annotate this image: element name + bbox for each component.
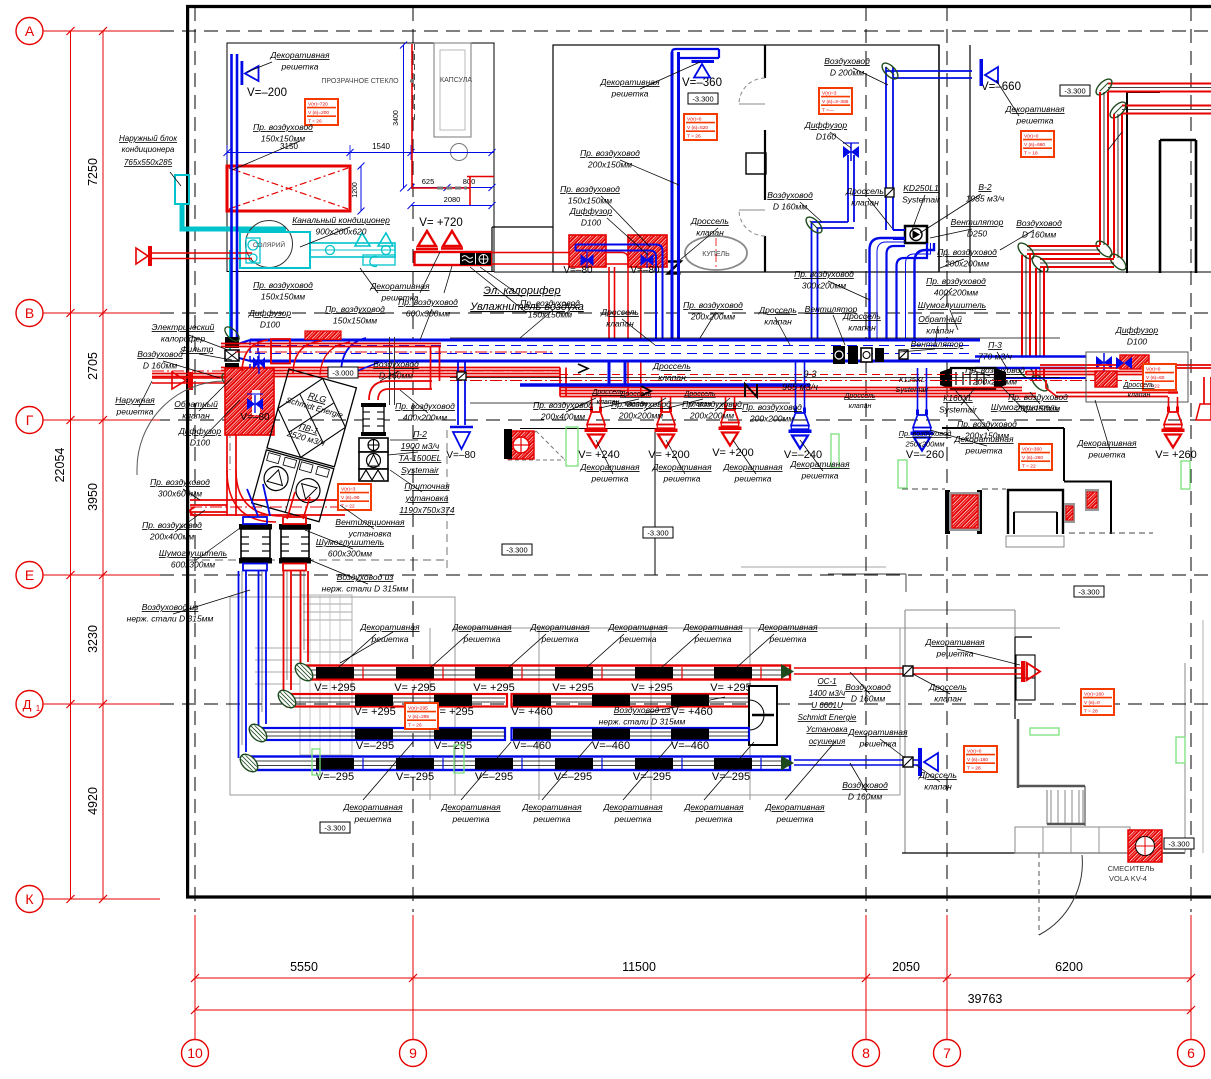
- svg-text:Декоративная: Декоративная: [342, 802, 403, 812]
- svg-text:250x200мм: 250x200мм: [904, 440, 944, 449]
- label КУПЕЛЬ: [685, 236, 747, 270]
- svg-text:D 160мм: D 160мм: [773, 202, 808, 212]
- door posts: [945, 490, 950, 534]
- red supply lines mid pair A: [560, 387, 1022, 389]
- axis bubble А: [16, 18, 43, 45]
- svg-text:625: 625: [422, 177, 435, 186]
- axis 9 red vertical extension: [412, 915, 414, 1040]
- wall x970: [969, 45, 971, 273]
- svg-text:Декоративная: Декоративная: [607, 622, 668, 632]
- drossel on blue drop: [457, 372, 466, 380]
- orange spec box: [964, 746, 997, 772]
- svg-text:D100: D100: [190, 438, 211, 448]
- svg-text:Systemair: Systemair: [401, 465, 440, 475]
- blue riser top-right D200: [885, 67, 887, 230]
- svg-text:V(п)=0: V(п)=0: [687, 117, 702, 123]
- svg-text:Декоративная: Декоративная: [359, 622, 420, 632]
- axis bubble Е: [16, 562, 43, 589]
- grille bars V+720: [416, 248, 438, 251]
- orange spec box: [305, 99, 338, 125]
- exhaust row 4 duct outline: [250, 757, 790, 771]
- svg-text:Дроссель: Дроссель: [600, 307, 639, 317]
- row2 elbow: [275, 687, 299, 711]
- green elbow d160: [803, 214, 824, 235]
- P-2 red elbow from top: [369, 381, 432, 400]
- svg-text:V (в)=3–385: V (в)=3–385: [822, 99, 849, 105]
- blue valve symbol 2: [641, 255, 653, 265]
- partial diffuser right edge: [1203, 377, 1205, 404]
- red dashed companion mid: [560, 374, 1020, 376]
- svg-text:Диффузор: Диффузор: [804, 120, 848, 130]
- elevation mark: [320, 822, 350, 833]
- svg-text:9-3: 9-3: [803, 369, 816, 379]
- blue wide duct 2 down from fan: [897, 243, 928, 345]
- svg-text:Электрический: Электрический: [152, 322, 215, 332]
- canal conditioner triangles: [355, 233, 370, 246]
- red riser to band x430: [430, 347, 432, 389]
- svg-text:V=–295: V=–295: [434, 740, 472, 752]
- red riser A3 down to band: [1021, 255, 1023, 368]
- svg-text:1190x750x374: 1190x750x374: [399, 505, 454, 515]
- bottom dim ticks line2: [191, 1006, 199, 1014]
- svg-text:6: 6: [1187, 1045, 1195, 1061]
- axis Г red extension: [43, 419, 160, 421]
- svg-text:Пр. воздуховод: Пр. воздуховод: [965, 365, 1025, 375]
- right room box around diffuser D100: [1086, 352, 1188, 402]
- P-2 zigzag section: [359, 469, 388, 481]
- svg-text:Пр. воздуховод: Пр. воздуховод: [580, 148, 640, 158]
- svg-text:решетка: решетка: [1088, 450, 1126, 460]
- electric heater black box: [460, 253, 475, 265]
- elevation mark: [643, 527, 673, 538]
- svg-text:решетка: решетка: [776, 814, 814, 824]
- grid line axis 10 vertical: [194, 7, 196, 912]
- svg-text:Приточная: Приточная: [404, 481, 450, 491]
- building outer wall bottom: [186, 895, 1211, 898]
- room boundary below rows: [300, 794, 900, 796]
- shelf boxes along bottom wall: [1015, 827, 1130, 853]
- row1 right green cone: [781, 664, 794, 679]
- svg-text:Дроссель: Дроссель: [845, 186, 884, 196]
- red dash-dot centerline mid: [450, 380, 1175, 382]
- svg-text:Воздуховод: Воздуховод: [824, 56, 870, 66]
- svg-text:200x150мм: 200x150мм: [587, 160, 632, 170]
- svg-text:решетка: решетка: [354, 814, 392, 824]
- supply row 2 duct outline: [287, 694, 507, 707]
- gray dashes near kapsula wall: [437, 187, 467, 190]
- flow arrow black 1: [641, 386, 651, 396]
- svg-text:В: В: [25, 305, 34, 321]
- svg-text:К125XL: К125XL: [899, 375, 925, 384]
- grid line axis A: [160, 30, 1211, 32]
- orange spec box: [1021, 131, 1054, 157]
- main exhaust duct band bottom edge: [250, 360, 980, 363]
- svg-text:V= +260: V= +260: [1155, 449, 1197, 461]
- main exhaust duct band top edge: [250, 339, 980, 342]
- axis bubble 9: [400, 1040, 427, 1067]
- green grille rect: [898, 460, 907, 488]
- silencer 1 blue stubs: [243, 517, 267, 524]
- svg-text:V=–295: V=–295: [356, 740, 394, 752]
- svg-text:V=–295: V=–295: [554, 771, 592, 783]
- svg-text:Декоративная: Декоративная: [764, 802, 825, 812]
- svg-text:К: К: [25, 891, 34, 907]
- svg-text:Дроссель: Дроссель: [758, 305, 797, 315]
- svg-text:Декоративная: Декоративная: [451, 622, 512, 632]
- blue exhaust riser left room: [230, 54, 233, 340]
- axis bubble 8: [853, 1040, 880, 1067]
- svg-text:ТА-1500EL: ТА-1500EL: [399, 453, 442, 463]
- building outer wall left: [186, 5, 189, 898]
- svg-text:решетка: решетка: [591, 474, 629, 484]
- green elbow filter top: [222, 324, 241, 343]
- band transition left: [232, 340, 250, 346]
- svg-text:V (в)=660: V (в)=660: [1024, 142, 1045, 148]
- leader naruzhny blok: [170, 172, 181, 186]
- svg-text:решетка: решетка: [614, 814, 652, 824]
- svg-text:Декоративная: Декоративная: [651, 462, 712, 472]
- svg-text:200x200мм: 200x200мм: [618, 411, 663, 421]
- dashed technical room lines: [446, 430, 448, 573]
- svg-text:Диффузор: Диффузор: [1115, 325, 1159, 335]
- cyan pipe vertical to band: [229, 250, 231, 352]
- RLG top hatch bars: [267, 453, 281, 464]
- mid room wall y569: [741, 566, 886, 568]
- cyan refrigerant pipe: [182, 204, 286, 229]
- svg-text:V(п)=0: V(п)=0: [967, 749, 982, 755]
- svg-text:Установка: Установка: [805, 725, 848, 734]
- blue wide duct 1 down from fan: [870, 238, 906, 340]
- svg-text:D 160мм: D 160мм: [1022, 230, 1057, 240]
- svg-text:11500: 11500: [622, 960, 656, 974]
- svg-text:V= +295: V= +295: [314, 682, 356, 694]
- svg-text:осушения: осушения: [809, 737, 846, 746]
- svg-text:клапан: клапан: [658, 373, 686, 383]
- green grille rect: [831, 434, 839, 468]
- svg-text:V=–295: V=–295: [633, 771, 671, 783]
- left dimension line 2: [102, 31, 104, 899]
- svg-text:Фильтр: Фильтр: [181, 344, 214, 354]
- svg-text:V= +200: V= +200: [648, 449, 690, 461]
- silencer 1 blue: [241, 529, 270, 558]
- svg-text:T = 18: T = 18: [1024, 151, 1038, 157]
- svg-text:T = 26: T = 26: [687, 134, 701, 140]
- svg-text:V(п)=360: V(п)=360: [1022, 447, 1042, 453]
- svg-text:Шумоглушитель: Шумоглушитель: [918, 300, 986, 310]
- orange spec box: [684, 114, 717, 140]
- elevation mark: [1074, 586, 1104, 597]
- canal conditioner arm: [310, 243, 395, 257]
- svg-text:Воздуховод из: Воздуховод из: [337, 572, 394, 582]
- red jog A to left: [1027, 245, 1100, 247]
- svg-text:V (в)=260: V (в)=260: [1022, 455, 1043, 461]
- svg-text:VOLA KV-4: VOLA KV-4: [1109, 874, 1147, 883]
- grid line axis 6 vertical: [1190, 7, 1192, 912]
- room top-center outline: [553, 45, 939, 272]
- svg-text:V=–295: V=–295: [396, 771, 434, 783]
- green elbow A3: [1015, 240, 1036, 261]
- blue diffuser valve D160: [843, 146, 851, 158]
- row1 grilles black: [316, 667, 354, 679]
- svg-text:Пр. воздуховод: Пр. воздуховод: [926, 276, 986, 286]
- svg-text:Воздуховод: Воздуховод: [373, 359, 419, 369]
- svg-text:клапан: клапан: [597, 399, 620, 406]
- svg-text:Пр. воздуховод: Пр. воздуховод: [533, 400, 593, 410]
- svg-text:Диффузор: Диффузор: [569, 206, 613, 216]
- wall x939: [938, 45, 940, 272]
- red supply lines left segment pair B: [152, 373, 560, 375]
- red duct D160 from right edge pair B: [1122, 105, 1211, 107]
- svg-text:V=–80: V=–80: [630, 265, 660, 276]
- red step jog x560: [559, 368, 561, 397]
- black thin line mid band: [450, 377, 1060, 379]
- svg-text:Пр. воздуховод: Пр. воздуховод: [325, 304, 385, 314]
- blue drop from band at x609: [608, 361, 611, 385]
- green elbow filter bottom: [219, 371, 238, 390]
- svg-text:8: 8: [862, 1045, 870, 1061]
- drossel on blue riser: [885, 188, 894, 197]
- row1 elbow: [292, 660, 316, 684]
- svg-text:200x400мм: 200x400мм: [149, 532, 194, 542]
- door arc lower: [739, 210, 765, 236]
- svg-text:Пр. воздуховод: Пр. воздуховод: [398, 297, 458, 307]
- svg-text:765x550x285: 765x550x285: [124, 158, 173, 167]
- svg-text:V= +295: V= +295: [710, 682, 752, 694]
- svg-text:V= +240: V= +240: [578, 449, 620, 461]
- red hatched box right room 2: [1095, 371, 1117, 387]
- red hatched diffuser box 2: [628, 235, 667, 267]
- svg-text:Декоративная: Декоративная: [440, 802, 501, 812]
- svg-text:-3.300: -3.300: [1168, 840, 1189, 849]
- grid line axis E: [160, 574, 1211, 576]
- black thin line y403: [470, 402, 790, 404]
- red riser A down: [1099, 92, 1101, 245]
- green elbow A2: [1093, 238, 1114, 259]
- orange spec box: [1143, 364, 1176, 390]
- svg-text:T = 28: T = 28: [1084, 709, 1098, 715]
- svg-text:600x300мм: 600x300мм: [328, 549, 372, 559]
- red transition to silencer2: [287, 492, 295, 519]
- svg-text:решетка: решетка: [769, 634, 807, 644]
- axis 10 red vertical extension: [194, 915, 196, 1040]
- orange spec box: [405, 703, 438, 729]
- svg-text:U 6601U: U 6601U: [811, 701, 843, 710]
- svg-text:Пр. воздуховод: Пр. воздуховод: [395, 401, 455, 411]
- bundle black center lines: [241, 571, 243, 745]
- svg-text:150x150мм: 150x150мм: [528, 310, 572, 320]
- svg-text:решетка: решетка: [611, 89, 649, 99]
- svg-text:V (в)=520: V (в)=520: [687, 125, 708, 131]
- wall jog above room: [828, 573, 906, 575]
- svg-text:7250: 7250: [86, 158, 100, 186]
- small room right of top-left room: [491, 227, 493, 272]
- svg-text:Диффузор: Диффузор: [248, 308, 292, 318]
- svg-text:клапан: клапан: [625, 401, 648, 408]
- svg-text:-3.300: -3.300: [647, 529, 668, 538]
- svg-text:Наружная: Наружная: [115, 395, 155, 405]
- svg-text:клапан: клапан: [182, 411, 210, 421]
- grid line axis D1: [160, 703, 1211, 705]
- svg-text:Декоративная: Декоративная: [722, 462, 783, 472]
- blue duct to fan: [893, 229, 905, 231]
- grid line axis 8 vertical: [865, 7, 867, 912]
- svg-text:решетка: решетка: [734, 474, 772, 484]
- svg-text:кондиционера: кондиционера: [122, 145, 175, 154]
- svg-text:установка: установка: [405, 493, 449, 503]
- RLG fan section: [252, 450, 334, 522]
- blue vertical bundle inner: [258, 571, 260, 730]
- red dash-dot centerline through band left: [235, 351, 555, 353]
- svg-text:нерж. стали D 315мм: нерж. стали D 315мм: [322, 584, 409, 594]
- svg-text:D250: D250: [967, 229, 988, 239]
- mid-right room wall x1111: [1110, 482, 1112, 535]
- svg-text:200x400мм: 200x400мм: [540, 412, 585, 422]
- svg-text:Дроссель: Дроссель: [842, 311, 881, 321]
- svg-text:ОС-1: ОС-1: [817, 677, 836, 686]
- svg-text:D160: D160: [816, 132, 837, 142]
- svg-text:решетка: решетка: [936, 649, 974, 659]
- axis bubble В: [16, 300, 43, 327]
- bench U shape: [1008, 490, 1063, 534]
- svg-text:Е: Е: [25, 567, 34, 583]
- supply duct to heater: [415, 252, 492, 265]
- svg-text:600x300мм: 600x300мм: [171, 560, 215, 570]
- red hatch box with cross: [508, 431, 534, 459]
- svg-text:200x150мм: 200x150мм: [1015, 404, 1060, 414]
- main band top thin black: [450, 337, 1060, 339]
- diffuser V= +200 at x730: [725, 396, 727, 410]
- svg-text:решетка: решетка: [1016, 116, 1054, 126]
- svg-text:СОЛЯРИЙ: СОЛЯРИЙ: [253, 240, 286, 249]
- humidifier black box: [476, 253, 491, 265]
- svg-text:V= +295: V= +295: [552, 682, 594, 694]
- blue grille top-left: [241, 61, 244, 85]
- silencer 2 red: [281, 529, 309, 558]
- svg-text:П-2: П-2: [413, 429, 427, 439]
- axis 6 red vertical extension: [1190, 915, 1192, 1040]
- red elbow arc bottom left: [236, 470, 282, 516]
- bottom-right room outline: [904, 610, 906, 853]
- green grille rect: [1030, 728, 1059, 735]
- svg-text:V= +460: V= +460: [511, 706, 553, 718]
- blue valve symbol 1: [581, 255, 593, 265]
- svg-text:Systemair: Systemair: [895, 385, 929, 394]
- blue valve end of band: [1096, 356, 1104, 369]
- axis 7 red vertical extension: [946, 915, 948, 1040]
- red corners down to risers: [622, 253, 628, 398]
- svg-text:V= +295: V= +295: [394, 682, 436, 694]
- room top-left outline: [227, 43, 494, 272]
- svg-text:6200: 6200: [1055, 960, 1083, 974]
- solarium ellipse: [246, 221, 293, 268]
- black filter stack: [225, 337, 239, 348]
- svg-text:Декоративная: Декоративная: [369, 281, 430, 291]
- svg-text:Воздуховод: Воздуховод: [137, 349, 183, 359]
- blue valve right room: [1116, 357, 1124, 369]
- blue dim 3400 vertical: [403, 45, 405, 188]
- svg-text:V (в)=200: V (в)=200: [308, 110, 329, 116]
- svg-text:Воздуховод: Воздуховод: [1016, 218, 1062, 228]
- svg-text:Вентилятор: Вентилятор: [951, 217, 1004, 227]
- red horizontal 600x300 upper: [221, 343, 441, 345]
- red vertical bundle inner: [283, 571, 285, 696]
- diffuser V= +200 at x666: [661, 396, 663, 412]
- svg-text:клапан: клапан: [849, 403, 872, 410]
- axis bubble 10: [182, 1040, 209, 1067]
- red rect outline in band: [271, 339, 290, 364]
- red transition arcs from band: [293, 341, 322, 373]
- svg-text:Декоративная: Декоративная: [683, 802, 744, 812]
- fittings cluster black boxes on band: [833, 346, 845, 364]
- svg-text:T = 26: T = 26: [408, 723, 422, 729]
- left dimension line 1: [70, 31, 72, 899]
- blue duct D160 diffuser branch: [847, 155, 849, 222]
- silencer 2 red stubs: [283, 517, 306, 524]
- RLG ventilation unit rotated: [252, 369, 357, 522]
- axis 8 red vertical extension: [865, 915, 867, 1040]
- svg-text:Г: Г: [26, 412, 34, 428]
- svg-text:V= +295: V= +295: [473, 682, 515, 694]
- dashed door openings: [902, 488, 945, 490]
- svg-text:-3.300: -3.300: [1078, 588, 1099, 597]
- blue grille V-660: [980, 59, 984, 86]
- svg-text:2050: 2050: [892, 960, 920, 974]
- wall niche square: [746, 153, 766, 174]
- svg-text:Дроссель: Дроссель: [843, 393, 875, 400]
- green grille rect: [1181, 461, 1190, 489]
- red supply grille left upper: [150, 252, 252, 254]
- door swing arc left: [137, 381, 225, 469]
- blue line through silencer: [1006, 377, 1086, 379]
- row3 elbow: [246, 721, 270, 745]
- green grille rect: [1176, 737, 1185, 763]
- red hatched small 2: [1064, 503, 1075, 523]
- svg-text:решетка: решетка: [663, 474, 701, 484]
- svg-text:Декоративная: Декоративная: [847, 727, 908, 737]
- main exhaust duct band white core: [250, 341, 980, 360]
- svg-text:Пр. воздуховод: Пр. воздуховод: [560, 184, 620, 194]
- svg-text:решетка: решетка: [452, 814, 490, 824]
- blue diffuser V-80: [450, 426, 473, 429]
- svg-text:800: 800: [463, 177, 476, 186]
- svg-text:Пр. воздуховод: Пр. воздуховод: [142, 520, 202, 530]
- red hatched box right room 1: [1120, 355, 1149, 369]
- svg-text:200x200мм: 200x200мм: [689, 411, 734, 421]
- green elbow B3: [1029, 253, 1050, 274]
- svg-text:Диффузор: Диффузор: [178, 426, 222, 436]
- svg-text:D100: D100: [581, 218, 602, 228]
- svg-text:решетка: решетка: [695, 814, 733, 824]
- red dash-dot centerline left: [152, 370, 560, 372]
- svg-text:Пр. воздуховод: Пр. воздуховод: [150, 477, 210, 487]
- svg-text:решетка: решетка: [533, 814, 571, 824]
- svg-text:-3.300: -3.300: [692, 95, 713, 104]
- red supply right segment B: [1025, 371, 1027, 375]
- svg-text:Пр. воздуховод: Пр. воздуховод: [794, 269, 854, 279]
- svg-text:200x250мм: 200x250мм: [972, 377, 1017, 387]
- svg-text:600x300мм: 600x300мм: [406, 309, 450, 319]
- svg-text:V (в)=295: V (в)=295: [408, 714, 429, 720]
- elevation mark: [1060, 85, 1090, 96]
- mid-right room wall y482: [1064, 481, 1112, 483]
- kapsula circle: [451, 144, 468, 161]
- red vertical bundle outer: [300, 571, 302, 668]
- svg-text:Пр. воздуховод: Пр. воздуховод: [253, 122, 313, 132]
- svg-text:Пр. воздуховод: Пр. воздуховод: [957, 419, 1017, 429]
- kapsula cabinet: [434, 43, 471, 137]
- gray sauna rooms right: [455, 627, 1060, 629]
- svg-text:КАПСУЛА: КАПСУЛА: [440, 77, 472, 84]
